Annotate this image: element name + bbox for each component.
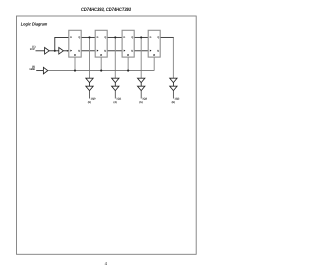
svg-text:(3): (3) xyxy=(88,101,91,104)
svg-text:1Q1: 1Q1 xyxy=(116,97,121,100)
node Q1 junction dot xyxy=(114,36,116,38)
flip-flop FF1 xyxy=(69,30,81,57)
node Q2 junction dot xyxy=(140,36,142,38)
wire Q2 drop from top rail xyxy=(140,37,142,78)
buffer U3 master reset xyxy=(43,67,47,74)
svg-text:1Q0: 1Q0 xyxy=(91,97,96,100)
flip-flop FF3 xyxy=(122,30,134,57)
wire 1MR input xyxy=(36,70,43,72)
wire 1CP input xyxy=(36,50,45,52)
wire Q3 output lead xyxy=(172,91,174,99)
wire FF1 MR stub xyxy=(74,57,76,71)
svg-text:Q: Q xyxy=(157,50,159,53)
buffer Q0 second stage xyxy=(86,86,93,90)
wire FF3 Qb to FF4 CP xyxy=(134,50,148,52)
svg-text:(5): (5) xyxy=(139,101,142,104)
buffer Q3 second stage xyxy=(170,86,177,90)
wire FF2 MR stub xyxy=(100,57,102,71)
svg-text:Q: Q xyxy=(78,50,80,53)
svg-text:Q: Q xyxy=(104,36,106,39)
wire U1 output to node A xyxy=(49,50,59,52)
pin CP wedge FF2 xyxy=(97,50,99,52)
wire FF1 Q to FF2 D xyxy=(81,36,95,38)
svg-text:Q: Q xyxy=(78,36,80,39)
svg-text:1Q3: 1Q3 xyxy=(174,97,179,100)
buffer Q1 second stage xyxy=(112,86,119,90)
node Q0 junction dot xyxy=(88,36,90,38)
wire Q3 between buffers xyxy=(172,83,174,87)
flip-flop FF2 xyxy=(95,30,107,57)
buffer U1 xyxy=(45,48,50,55)
svg-text:(6): (6) xyxy=(172,101,175,104)
wire FF3 Q to FF4 D xyxy=(134,36,148,38)
svg-text:Q: Q xyxy=(131,36,133,39)
svg-text:R: R xyxy=(127,54,129,57)
wire Q0 drop from top rail xyxy=(89,37,91,78)
svg-text:R: R xyxy=(100,54,102,57)
buffer Q3 first stage xyxy=(170,78,177,82)
wire Q1 between buffers xyxy=(114,83,116,87)
buffer Q2 first stage xyxy=(138,78,145,82)
wire Q2 between buffers xyxy=(140,83,142,87)
wire Q0 output lead xyxy=(89,91,91,99)
svg-text:1CP: 1CP xyxy=(30,48,35,51)
node MR3 junction dot xyxy=(127,70,129,72)
flip-flop FF4 xyxy=(148,30,160,57)
svg-text:Q: Q xyxy=(131,50,133,53)
wire Q1 output lead xyxy=(114,91,116,99)
svg-text:Q: Q xyxy=(104,50,106,53)
node A junction dot xyxy=(54,50,56,52)
wire FF2 Qb to FF3 CP xyxy=(107,50,122,52)
node MR2 junction dot xyxy=(100,70,102,72)
wire FF4 Q output bend to Q3 drop xyxy=(160,36,174,38)
buffer U2 xyxy=(59,48,64,55)
svg-text:R: R xyxy=(74,54,76,57)
wire FF4 MR stub xyxy=(153,57,155,71)
wire FF3 MR stub xyxy=(127,57,129,71)
pin CP wedge FF4 xyxy=(150,50,152,52)
wire FF2 Q to FF3 D xyxy=(107,36,122,38)
wire Q0 between buffers xyxy=(89,83,91,87)
node MR1 junction dot xyxy=(74,70,76,72)
wire arrowhead into FF1 CP xyxy=(67,50,69,52)
buffer Q1 first stage xyxy=(112,78,119,82)
svg-text:Logic Diagram: Logic Diagram xyxy=(21,21,48,26)
wire U2 output to FF1 CP xyxy=(63,50,68,52)
svg-text:D: D xyxy=(124,36,126,39)
wire Q1 drop from top rail xyxy=(114,37,116,78)
svg-text:R: R xyxy=(153,54,155,57)
svg-text:CD74HC393, CD74HCT393: CD74HC393, CD74HCT393 xyxy=(81,7,131,13)
wire node A feedback to FF1 D input xyxy=(55,37,69,50)
svg-text:1MR: 1MR xyxy=(29,68,35,71)
pin CP wedge FF3 xyxy=(124,50,126,52)
page frame xyxy=(17,16,197,254)
wire FF1 Qb to FF2 CP xyxy=(81,50,95,52)
wire MR bus xyxy=(48,70,154,72)
svg-text:D: D xyxy=(97,36,99,39)
svg-text:1Q2: 1Q2 xyxy=(142,97,147,100)
svg-text:D: D xyxy=(70,36,72,39)
svg-text:D: D xyxy=(150,36,152,39)
svg-text:Q: Q xyxy=(157,36,159,39)
pin CP wedge FF1 xyxy=(70,50,72,52)
buffer Q2 second stage xyxy=(138,86,145,90)
buffer Q0 first stage xyxy=(86,78,93,82)
wire Q2 output lead xyxy=(140,91,142,99)
svg-text:(4): (4) xyxy=(114,101,117,104)
